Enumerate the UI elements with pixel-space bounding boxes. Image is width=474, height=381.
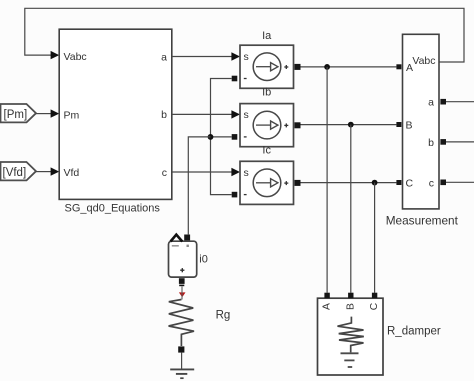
svg-text:A: A	[322, 303, 333, 310]
svg-text:Vabc: Vabc	[64, 51, 87, 63]
wire: phase B row (Ib out to Measurement B)	[301, 122, 402, 127]
block Measurement	[386, 34, 459, 227]
svg-text:s: s	[244, 51, 249, 63]
ground (inside R_damper)	[341, 353, 359, 367]
svg-text:Vabc: Vabc	[412, 55, 435, 67]
junction: minus bus node	[208, 134, 214, 140]
junction: node B	[348, 122, 354, 128]
svg-text:b: b	[428, 137, 434, 149]
wire: drop C to R_damper	[374, 183, 376, 293]
wire: a output to Ia s input	[172, 52, 240, 60]
svg-text:Measurement: Measurement	[386, 213, 459, 227]
svg-text:B: B	[406, 120, 413, 132]
junction: node C	[372, 180, 378, 186]
wire: minus bus (Ia-,Ib-,Ic- common)	[211, 79, 232, 195]
svg-text:Pm: Pm	[64, 109, 80, 121]
current source Ic	[232, 145, 301, 205]
svg-text:s: s	[244, 109, 249, 121]
svg-text:a: a	[428, 97, 434, 109]
wire: i0 to Rg (red direction arrow)	[179, 287, 186, 300]
wire: [Pm] to Pm input	[36, 109, 59, 117]
wire: [Vfd] to Vfd input	[36, 167, 59, 175]
current source Ia	[232, 30, 301, 89]
svg-text:SG_qd0_Equations: SG_qd0_Equations	[64, 203, 160, 215]
From tag [Vfd]	[1, 162, 37, 180]
block SG_qd0_Equations	[59, 29, 172, 214]
svg-text:[Vfd]: [Vfd]	[3, 167, 27, 179]
block R_damper	[318, 293, 384, 375]
svg-text:Ia: Ia	[262, 30, 272, 42]
svg-text:R_damper: R_damper	[387, 326, 441, 338]
svg-text:s: s	[244, 167, 249, 179]
wire: Measurement c output to edge	[440, 180, 474, 186]
svg-text:c: c	[429, 177, 434, 189]
wire: drop A to R_damper	[326, 67, 328, 293]
ground (below Rg)	[170, 353, 194, 379]
svg-text:[Pm]: [Pm]	[4, 109, 28, 121]
svg-text:c: c	[162, 167, 167, 179]
current source Ib	[232, 87, 301, 147]
svg-text:C: C	[369, 302, 380, 310]
svg-text:B: B	[346, 303, 357, 310]
resistor Rg	[169, 300, 231, 353]
From tag [Pm]	[1, 104, 37, 122]
svg-text:i0: i0	[199, 253, 208, 265]
current measurement block i0	[169, 235, 208, 286]
wire: Measurement b output to edge	[440, 139, 474, 145]
wire: c output to Ic s input	[172, 168, 240, 176]
svg-text:Rg: Rg	[216, 309, 231, 321]
wire: Measurement a output to edge	[440, 99, 474, 105]
wire: minus bus to i0 input	[188, 137, 210, 235]
svg-text:Ic: Ic	[262, 145, 271, 157]
wire: Vabc feedback from Measurement output to SG block input	[25, 8, 464, 62]
wire: phase C row (Ic out to Measurement C)	[301, 180, 402, 185]
svg-text:C: C	[406, 178, 414, 190]
svg-text:b: b	[161, 109, 167, 121]
wire: drop B to R_damper	[350, 125, 352, 293]
svg-text:Ib: Ib	[262, 87, 271, 99]
svg-text:Vfd: Vfd	[64, 167, 80, 179]
wire: phase A row (Ia out to Measurement A)	[301, 64, 402, 69]
wire: b output to Ib s input	[172, 110, 240, 118]
junction: node A	[324, 64, 330, 70]
svg-text:a: a	[161, 51, 167, 63]
resistor inside R_damper	[338, 317, 364, 353]
